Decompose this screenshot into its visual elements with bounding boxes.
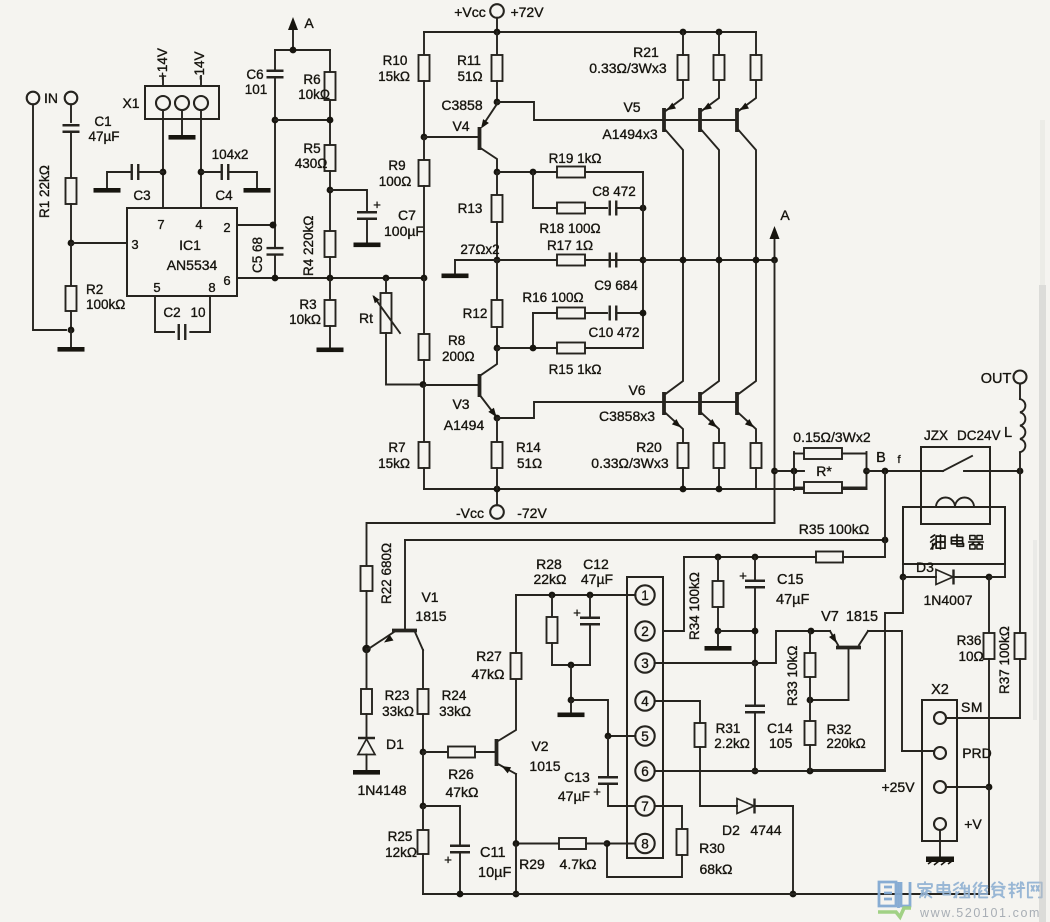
resistor R33 <box>805 653 816 677</box>
svg-text:220kΩ: 220kΩ <box>826 736 865 751</box>
svg-text:R32: R32 <box>827 722 852 737</box>
resistor R18 <box>557 203 585 214</box>
wire +V pin to chassis <box>939 830 941 856</box>
Rt arrow diagonal <box>374 297 400 333</box>
svg-text:1815: 1815 <box>415 608 446 624</box>
connector block box <box>627 577 663 858</box>
svg-text:-Vcc: -Vcc <box>456 505 484 521</box>
junction ground node 700 <box>568 697 575 704</box>
svg-text:R26: R26 <box>448 766 474 782</box>
junction V7 emitter node <box>808 628 815 635</box>
junction R34 C15 gnd node <box>715 628 722 635</box>
wire B down to R35 row <box>884 471 886 557</box>
transistor V4 emitter <box>481 148 498 172</box>
wire R24 to R26 node <box>422 714 424 752</box>
chassis ground hatched <box>926 857 954 863</box>
svg-text:+25V: +25V <box>881 779 915 795</box>
relay coil <box>903 498 1005 508</box>
transistor V5-3 emitter with arrow <box>739 80 757 111</box>
svg-text:2: 2 <box>641 624 649 639</box>
resistor R17 <box>557 255 585 266</box>
watermark book icon <box>879 882 910 908</box>
svg-text:1015: 1015 <box>529 758 560 774</box>
wire gnd node to pin5 <box>571 700 608 736</box>
wire +Vcc top bus <box>424 31 756 33</box>
svg-text:C4: C4 <box>215 188 233 203</box>
wire Rt bottom to V3 base node <box>386 333 423 385</box>
svg-text:C15: C15 <box>777 572 804 588</box>
junction V4 base node <box>421 134 428 141</box>
resistor R32 <box>805 721 816 745</box>
pin circle 4 <box>635 691 654 710</box>
wire C4 left <box>201 171 222 173</box>
capacitor C2 <box>179 324 186 340</box>
svg-text:R17 1Ω: R17 1Ω <box>547 238 593 253</box>
svg-text:D1: D1 <box>386 736 404 752</box>
wire pin2 node to C5 <box>274 225 276 248</box>
junction V3 collector node <box>494 345 501 352</box>
transistor V2 base bar <box>495 739 499 766</box>
wire +25V pin to R36 rail <box>946 786 989 788</box>
wire PRD pin to V7 rail <box>902 750 934 752</box>
svg-text:7: 7 <box>641 799 649 814</box>
wire OUT column down to R37 <box>1019 471 1021 633</box>
transistor V6-3 emitter with arrow <box>739 413 757 443</box>
svg-text:10kΩ: 10kΩ <box>289 312 321 327</box>
junction V2 emitter R29 <box>513 840 520 847</box>
svg-text:0.15Ω/3Wx2: 0.15Ω/3Wx2 <box>793 429 871 445</box>
wire down to R8 <box>423 278 425 334</box>
svg-text:B: B <box>876 450 886 466</box>
wire Rstar top left <box>794 453 804 455</box>
svg-text:1815: 1815 <box>846 609 878 625</box>
resistor R16 <box>557 308 585 319</box>
wire Rstar to B <box>867 470 944 472</box>
junction mid 665 <box>568 662 575 669</box>
junction V1 emitter node <box>362 645 370 653</box>
wire R14 top <box>496 418 498 442</box>
wire V2 emitter down <box>515 774 517 844</box>
wire R36 top <box>988 577 990 633</box>
svg-text:R15 1kΩ: R15 1kΩ <box>549 362 602 377</box>
node A arrow right <box>774 238 776 260</box>
junction C12 top <box>587 592 594 599</box>
wire R29 right <box>586 843 607 845</box>
resistor R20-3 <box>751 443 762 468</box>
wire R25 to bus corner <box>422 854 424 894</box>
wire bus corner to R10 <box>423 32 425 55</box>
resistor R20-1 <box>678 443 689 468</box>
transistor V5-3 collector <box>739 130 757 260</box>
wire C7 to ground <box>366 219 368 242</box>
junction R19 node <box>494 169 501 176</box>
wire C14 top <box>754 663 756 706</box>
svg-text:15kΩ: 15kΩ <box>378 456 410 471</box>
relay label box <box>903 507 1005 564</box>
junction R34 top <box>715 554 722 561</box>
wire C15 down <box>754 587 756 663</box>
wire pin2 riser <box>663 557 684 631</box>
transistor V3 emitter with arrow <box>481 396 496 415</box>
svg-text:R*: R* <box>816 463 832 479</box>
wire V1 collector down <box>422 650 424 689</box>
svg-text:R16 100Ω: R16 100Ω <box>522 290 583 305</box>
wire R13 top <box>496 172 498 195</box>
wire row R17 C9 <box>497 259 643 261</box>
wire R32 bottom <box>809 745 811 771</box>
wire IN left down to ground rail <box>33 104 66 330</box>
resistor R7 <box>419 442 430 468</box>
svg-text:A1494: A1494 <box>444 417 485 433</box>
diode D3 <box>903 576 936 578</box>
transistor V6-1 bar <box>662 392 666 415</box>
svg-text:+: + <box>444 852 452 867</box>
wire R26 to V2 base <box>475 751 495 753</box>
svg-text:8: 8 <box>208 280 215 295</box>
wire pin8 row left <box>607 843 635 845</box>
junction +Vcc on bus <box>494 29 501 36</box>
transistor V4 collector diagonal with arrow <box>483 104 497 125</box>
svg-text:C14: C14 <box>767 720 793 736</box>
transistor V1 collector diagonal <box>415 632 423 650</box>
wire bottom bus <box>423 893 989 895</box>
svg-text:100kΩ: 100kΩ <box>86 297 125 312</box>
svg-text:C13: C13 <box>564 769 590 785</box>
transistor V5-1 collector <box>666 130 684 260</box>
svg-text:R18 100Ω: R18 100Ω <box>539 221 600 236</box>
op-amp IC1 AN5534 box <box>127 208 237 296</box>
svg-text:-72V: -72V <box>517 505 547 521</box>
junction R4 on pin6 bus <box>327 275 334 282</box>
resistor R29 <box>559 838 586 849</box>
wire V7 collector to PRD rail <box>868 631 902 751</box>
right rail of ladder <box>642 172 644 348</box>
svg-text:A: A <box>304 15 314 31</box>
svg-text:6: 6 <box>641 764 649 779</box>
svg-text:51Ω: 51Ω <box>517 456 542 471</box>
wire D3 left rail down <box>810 577 903 770</box>
svg-text:7: 7 <box>157 217 164 232</box>
connector X2 box <box>922 700 957 841</box>
wire R21-1 stub <box>682 32 684 55</box>
svg-text:R1 22kΩ: R1 22kΩ <box>37 165 52 218</box>
wire V7 base to divider <box>810 699 849 701</box>
junction X2 pin3 node <box>986 784 993 791</box>
resistor R6 <box>325 72 336 100</box>
svg-text:SM: SM <box>961 699 983 715</box>
relay contact box <box>921 447 990 524</box>
wire row A extension <box>643 259 775 261</box>
wire pin3 row <box>655 662 755 664</box>
svg-text:C8 472: C8 472 <box>592 184 636 199</box>
junction row348 left <box>530 345 537 352</box>
wire X1 pin1 down to IC pin7 <box>162 110 164 208</box>
svg-text:+: + <box>573 605 581 620</box>
wire SM pin <box>946 717 1020 719</box>
transistor V7 emitter with arrow <box>830 631 838 645</box>
wire pin7 row right <box>655 806 682 829</box>
junction R21-1 on +Vcc bus <box>680 29 687 36</box>
capacitor C13 electrolytic <box>598 777 618 784</box>
wire R31 down to D2 row <box>700 747 737 806</box>
svg-text:R12: R12 <box>463 306 488 321</box>
wire R7 to -Vcc bus <box>423 468 425 489</box>
scan streak right margin <box>1039 285 1046 922</box>
svg-text:-14V: -14V <box>192 51 207 80</box>
wire R8 to V3 base node <box>423 360 425 385</box>
transistor V5-3 bar <box>735 108 739 132</box>
wire R12 top <box>496 260 498 300</box>
terminal IN left <box>27 92 40 105</box>
junction Rt tap on pin6 bus <box>383 275 390 282</box>
svg-text:5: 5 <box>641 729 649 744</box>
junction C5 on pin6 bus <box>272 275 279 282</box>
transistor V7 collector diagonal <box>859 631 868 645</box>
terminal OUT <box>1014 371 1027 384</box>
svg-text:AN5534: AN5534 <box>167 257 218 273</box>
wire R2 to ground node <box>70 311 72 330</box>
junction V4 collector node <box>494 99 501 106</box>
svg-text:47µF: 47µF <box>558 788 590 804</box>
transistor V6-2 collector <box>702 260 720 394</box>
svg-text:10: 10 <box>190 305 205 320</box>
inductor L <box>1019 384 1021 400</box>
svg-text:C11: C11 <box>480 845 506 861</box>
resistor Rstar bottom <box>804 482 842 493</box>
wire R13 to mid node <box>496 222 498 260</box>
diode D2 <box>737 799 754 814</box>
junction C3 node <box>160 169 167 176</box>
label relay chinese <box>931 535 945 549</box>
transistor V5-2 collector <box>702 130 720 260</box>
svg-text:4: 4 <box>195 217 202 232</box>
junction R21-2 on +Vcc bus <box>716 29 723 36</box>
pin circle 5 <box>635 726 654 745</box>
svg-text:C3: C3 <box>133 188 150 203</box>
svg-text:R27: R27 <box>476 648 502 664</box>
junction R28 top <box>549 592 556 599</box>
wire C14 bottom <box>754 712 756 771</box>
wire down to R7 <box>423 385 425 443</box>
svg-text:R28: R28 <box>536 556 562 572</box>
junction V3 base node <box>420 381 427 388</box>
junction OUT column at switch <box>1017 468 1024 475</box>
transistor V6-1 emitter with arrow <box>666 413 684 443</box>
resistor R10 <box>419 55 430 81</box>
wire R27 top to pin1 row <box>515 595 517 653</box>
junction C15 bottom <box>752 628 759 635</box>
svg-text:12kΩ: 12kΩ <box>385 845 417 860</box>
svg-text:V2: V2 <box>531 738 548 754</box>
wire A rail to Rstar <box>775 470 805 472</box>
transistor V3 collector diagonal <box>481 348 497 375</box>
svg-text:+Vcc: +Vcc <box>454 4 486 20</box>
wire R3 to ground <box>329 326 331 347</box>
junction pin6 bus end <box>421 275 428 282</box>
wire R20-3 to bus <box>755 468 757 489</box>
svg-text:R4 220kΩ: R4 220kΩ <box>301 216 316 276</box>
wire R33 top stub <box>809 631 811 653</box>
svg-text:A: A <box>780 207 790 223</box>
svg-text:R11: R11 <box>457 53 481 68</box>
wire IC1 pin3 left <box>71 242 127 244</box>
capacitor C7 electrolytic <box>357 212 377 219</box>
resistor R31 <box>695 723 706 747</box>
wire R29 row <box>516 843 559 845</box>
wire step to V6 base bus <box>497 402 737 418</box>
resistor R21-3 <box>751 55 762 80</box>
svg-text:C1: C1 <box>94 114 111 129</box>
svg-text:V6: V6 <box>628 382 645 398</box>
svg-text:f: f <box>897 454 901 466</box>
svg-text:+72V: +72V <box>510 4 544 20</box>
transistor V6-2 emitter with arrow <box>702 413 720 443</box>
svg-text:4: 4 <box>641 694 649 709</box>
wire C6 top stub <box>274 50 276 71</box>
svg-text:R6: R6 <box>303 72 320 87</box>
svg-text:R21: R21 <box>633 44 659 60</box>
svg-text:V7: V7 <box>821 609 839 625</box>
wire row R15 <box>497 347 643 349</box>
junction C14 on pin6 row <box>752 768 759 775</box>
svg-text:10Ω: 10Ω <box>958 649 983 664</box>
wire R9 to pin6 node <box>423 186 425 278</box>
svg-text:R9: R9 <box>388 158 405 173</box>
svg-text:DC24V: DC24V <box>957 428 1001 443</box>
Rstar right bar <box>866 452 868 489</box>
svg-text:R36: R36 <box>957 633 982 648</box>
wire step to V5 base bus <box>497 102 737 120</box>
transistor V2 collector diagonal <box>498 679 516 741</box>
junction C4 node <box>198 169 205 176</box>
svg-text:JZX: JZX <box>924 428 948 443</box>
wire R26 left <box>423 751 448 753</box>
capacitor C6 <box>267 71 284 78</box>
svg-text:C9 684: C9 684 <box>594 278 638 293</box>
junction row208 right <box>640 205 647 212</box>
svg-text:R23: R23 <box>385 688 410 703</box>
wire node to R2 <box>70 243 72 286</box>
wire V1 base riser <box>404 540 406 629</box>
wire V7 base down <box>848 648 850 701</box>
wire C12 top stub <box>589 595 591 618</box>
wire C1 to R1 <box>70 132 72 178</box>
wire R36 down to X2 pin3 <box>988 659 990 787</box>
junction row260 right <box>640 257 647 264</box>
junction A rail at Rstar row <box>771 468 778 475</box>
wire R22 to emitter node <box>366 591 368 649</box>
resistor R14 <box>492 442 503 468</box>
X1 stub +14V <box>162 76 164 86</box>
ground C12 node <box>570 700 572 712</box>
junction pin2 on C column <box>270 222 277 229</box>
resistor R8 <box>419 334 430 360</box>
junction V3 emitter node <box>494 415 501 422</box>
wire X1 pin3 down to IC pin4 <box>200 110 202 208</box>
wire R14 to bus <box>496 468 498 489</box>
capacitor C11 electrolytic <box>450 846 470 853</box>
wire C4 to ground <box>228 172 257 187</box>
wire IC1 pin6 bus <box>237 277 424 279</box>
svg-text:1: 1 <box>641 588 649 603</box>
junction V6-2 collector on A row <box>716 257 723 264</box>
wire C15 top stub <box>754 557 756 581</box>
svg-text:2.2kΩ: 2.2kΩ <box>714 736 750 751</box>
transistor V5-1 emitter with arrow <box>666 80 684 111</box>
wire tie C6 column to R column <box>275 119 330 121</box>
wire L to switch node <box>1019 452 1021 471</box>
wire V2 emitter to bus <box>515 844 517 895</box>
pin circle 8 <box>635 834 654 853</box>
svg-text:R29: R29 <box>519 856 545 872</box>
capacitor C12 electrolytic <box>580 618 600 625</box>
junction node B <box>882 468 889 475</box>
wire row R16 C10 <box>533 312 607 314</box>
svg-text:100µF: 100µF <box>384 223 424 239</box>
wire R28 top stub <box>551 595 553 617</box>
wire R21-2 stub <box>718 32 720 55</box>
wire C13 cap top <box>607 736 609 777</box>
svg-text:C2: C2 <box>163 305 180 320</box>
wire R1 to node pin3 <box>70 204 72 243</box>
resistor R3 <box>325 300 336 326</box>
wire R25 top stub <box>422 806 424 830</box>
resistor R2 <box>66 286 77 311</box>
junction R6-R5 <box>327 117 334 124</box>
svg-text:R33 10kΩ: R33 10kΩ <box>785 646 800 706</box>
wire R32 top <box>809 700 811 721</box>
svg-text:47µF: 47µF <box>88 129 119 144</box>
wire R30 bottom U to pin8 <box>607 844 682 878</box>
resistor Rstar top <box>804 448 842 459</box>
wire pin6 row <box>655 770 885 772</box>
svg-text:4744: 4744 <box>750 822 781 838</box>
resistor R5 <box>325 145 336 171</box>
relay switch right wire <box>964 470 1020 472</box>
junction C13 top node <box>605 733 612 740</box>
capacitor C3 <box>132 164 139 180</box>
wire V3 base <box>424 384 478 386</box>
connector X1 box <box>145 86 219 119</box>
svg-text:2: 2 <box>223 220 230 235</box>
svg-text:C6: C6 <box>246 67 263 82</box>
resistor R34 <box>713 581 724 607</box>
transistor V3 base bar <box>478 374 482 397</box>
X1 pin circles <box>156 96 170 110</box>
svg-text:R13: R13 <box>458 201 483 216</box>
resistor R26 <box>448 747 475 758</box>
junction ground node <box>68 327 75 334</box>
junction mid node 27ohm <box>494 257 501 264</box>
junction C11 node <box>420 803 427 810</box>
wire C7 branch <box>330 190 367 210</box>
svg-text:PRD: PRD <box>962 745 992 761</box>
svg-text:R35 100kΩ: R35 100kΩ <box>799 521 869 537</box>
node A top-left arrow <box>292 30 294 50</box>
terminal -Vcc <box>490 505 504 519</box>
svg-text:47µF: 47µF <box>581 571 613 587</box>
svg-text:3: 3 <box>641 656 649 671</box>
svg-text:3: 3 <box>131 237 138 252</box>
junction B line tap <box>882 537 889 544</box>
svg-text:D3: D3 <box>916 559 934 575</box>
pin circle 6 <box>635 761 654 780</box>
resistor R28 <box>547 617 558 643</box>
wire R6 to R5 <box>329 100 331 145</box>
wire C11 branch <box>423 806 460 845</box>
pin circle 1 <box>635 585 654 604</box>
resistor R11 <box>492 55 503 81</box>
